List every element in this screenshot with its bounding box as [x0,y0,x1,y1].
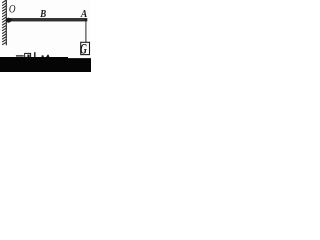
background [0,0,91,72]
caption fragment: vertical stroke [34,52,35,57]
caption fragment: top of digit [46,55,49,57]
weight label G [80,41,87,58]
svg-text:G: G [80,41,87,58]
caption fragment: dash [16,55,24,56]
caption fragment: top of boxed glyph [25,53,31,57]
label O [9,4,16,16]
caption fragment: small bump [42,55,44,57]
black bottom strip [0,57,91,72]
hinge at O [6,18,11,23]
wall hatching [3,0,6,44]
beam highlight texture [12,18,84,21]
string from A down to weight [85,21,87,42]
svg-text:O: O [9,4,16,16]
label B [39,8,46,20]
wall vertical line [5,0,7,45]
weight box [81,42,90,54]
label A [80,8,88,20]
beam rod O to A [7,18,88,21]
